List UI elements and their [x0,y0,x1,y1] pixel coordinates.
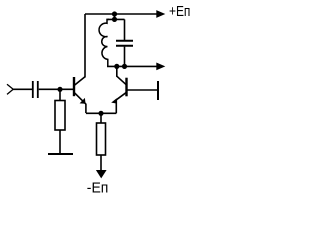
svg-text:-Еп: -Еп [87,180,109,196]
svg-text:+Еп: +Еп [169,4,190,20]
